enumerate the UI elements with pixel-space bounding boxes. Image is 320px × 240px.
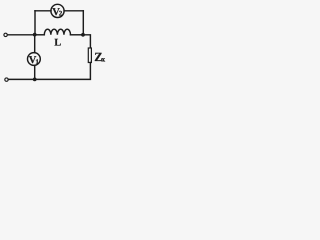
node C (junction dot) xyxy=(33,78,37,82)
voltmeter V2 xyxy=(51,4,64,18)
node A (junction dot) xyxy=(33,33,37,37)
inductor L xyxy=(44,29,70,35)
value label L xyxy=(54,37,61,48)
impedance Zx (box) xyxy=(88,48,91,63)
svg-text:2: 2 xyxy=(59,10,63,18)
wire node A to top rail xyxy=(34,11,36,35)
wire node B to impedance Zx xyxy=(83,35,90,48)
terminal T1 (input, top-left) xyxy=(4,33,7,36)
svg-text:L: L xyxy=(54,37,61,48)
svg-text:x: x xyxy=(102,56,106,64)
wire top rail right (V2 to right drop) xyxy=(64,10,83,12)
wire top rail left (to voltmeter V2) xyxy=(35,10,51,12)
wire voltmeter V1 to node C xyxy=(34,65,36,79)
voltmeter V1 xyxy=(28,53,41,66)
wire node A to inductor xyxy=(35,34,45,36)
terminal T2 (input, bottom-left) xyxy=(5,78,8,81)
wire inductor to node B xyxy=(71,34,84,36)
wire node C to terminal T2 xyxy=(8,78,35,80)
svg-text:1: 1 xyxy=(35,58,39,66)
wire Zx to bottom rail xyxy=(35,63,91,80)
wire T1 to node A xyxy=(7,34,34,36)
value label Zx xyxy=(94,50,105,64)
wire node A to voltmeter V1 xyxy=(34,35,36,53)
node B (junction dot) xyxy=(81,33,85,37)
wire right drop to node B xyxy=(82,11,84,35)
